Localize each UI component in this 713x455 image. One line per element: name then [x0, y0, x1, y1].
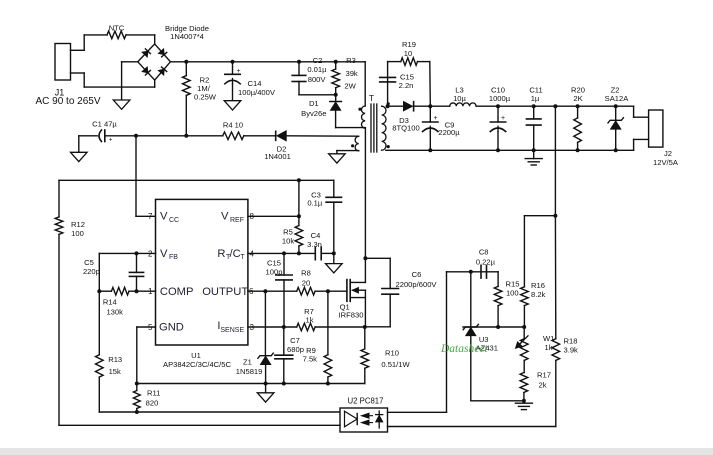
node dot secondary bottom [387, 145, 390, 148]
wire C8 node [447, 271, 499, 273]
svg-text:R5: R5 [283, 228, 293, 237]
resistor R2 [184, 60, 188, 64]
resistor R19 [401, 58, 418, 66]
svg-text:R4 10: R4 10 [223, 121, 243, 130]
svg-text:R15: R15 [506, 280, 520, 289]
phototransistor in U2 [345, 411, 358, 427]
capacitor C4 [314, 247, 316, 260]
svg-text:+: + [109, 137, 113, 144]
svg-text:D1: D1 [309, 99, 319, 108]
svg-text:C10: C10 [491, 85, 505, 94]
wire VREF rail [59, 179, 299, 181]
resistor R8 [297, 287, 315, 295]
ground [257, 393, 274, 402]
resistor R3 [334, 60, 338, 64]
svg-text:C7: C7 [290, 336, 300, 345]
svg-text:FB: FB [169, 254, 178, 261]
node dot primary [358, 108, 361, 111]
svg-text:+: + [236, 68, 240, 75]
diode D1 Byv26e [335, 95, 337, 102]
resistor R7 [297, 323, 315, 331]
svg-text:220p: 220p [83, 267, 100, 276]
svg-text:1000µ: 1000µ [489, 94, 511, 103]
diode D3 8TQ100 [404, 102, 413, 111]
svg-text:IRF830: IRF830 [339, 310, 364, 319]
svg-text:R19: R19 [402, 40, 416, 49]
capacitor C1 [79, 135, 97, 137]
svg-text:1k: 1k [305, 316, 313, 325]
svg-text:U2 PC817: U2 PC817 [348, 397, 384, 406]
wire [134, 134, 138, 138]
LED in U2 [378, 411, 380, 428]
capacitor C6 [389, 258, 391, 288]
svg-text:T: T [369, 93, 374, 103]
ground [333, 253, 335, 263]
svg-text:3.3n: 3.3n [307, 240, 322, 249]
wire secondary return [386, 149, 634, 151]
wire sense divider feed [554, 106, 556, 216]
wire opto emitter rail [59, 424, 340, 426]
svg-text:U1: U1 [191, 351, 201, 360]
svg-text:10µ: 10µ [453, 94, 466, 103]
diode Z1 1N5819 [264, 291, 266, 356]
svg-text:2200p/600V: 2200p/600V [396, 280, 438, 289]
svg-text:V: V [160, 248, 168, 260]
capacitor C7 [283, 327, 285, 355]
svg-text:Datasheet: Datasheet [440, 343, 488, 355]
ground [78, 136, 80, 153]
wire [418, 61, 430, 63]
resistor R10 [364, 327, 366, 349]
optocoupler U2 PC817 [340, 408, 388, 432]
svg-text:C11: C11 [529, 85, 542, 94]
svg-text:COMP: COMP [160, 286, 194, 298]
svg-text:20: 20 [302, 279, 310, 288]
capacitor C14 [231, 60, 235, 64]
resistor R13 [98, 291, 100, 355]
wire VREF pin [248, 215, 299, 217]
svg-text:R16: R16 [531, 281, 545, 290]
ground [122, 61, 138, 63]
svg-text:3.9k: 3.9k [564, 346, 579, 355]
resistor R20 [576, 104, 580, 108]
capacitor C15 timing [282, 251, 286, 255]
svg-text:OUTPUT: OUTPUT [202, 286, 248, 298]
svg-text:REF: REF [230, 217, 244, 224]
wire primary top [364, 62, 366, 106]
svg-text:100: 100 [71, 229, 84, 238]
svg-text:12V/5A: 12V/5A [653, 158, 679, 167]
svg-text:15k: 15k [109, 367, 121, 376]
diode D2 1N4001 [275, 131, 277, 140]
svg-text:100µ/400V: 100µ/400V [238, 88, 276, 97]
resistor R11 [136, 384, 138, 391]
svg-text:AP3842C/3C/4C/5C: AP3842C/3C/4C/5C [163, 360, 231, 369]
svg-text:SA12A: SA12A [605, 94, 630, 103]
svg-text:R3: R3 [346, 56, 356, 65]
svg-text:+: + [433, 115, 437, 122]
svg-text:C4: C4 [311, 231, 321, 240]
resistor R4 [223, 132, 244, 140]
svg-text:0.25W: 0.25W [194, 93, 217, 102]
svg-text:100: 100 [506, 289, 519, 298]
connector J1 [55, 44, 71, 81]
svg-text:Z2: Z2 [611, 85, 620, 94]
svg-text:R: R [217, 248, 225, 260]
resistor R17 [520, 373, 528, 393]
ground [224, 101, 241, 110]
wire drain line [364, 128, 366, 258]
svg-text:R14: R14 [103, 298, 117, 307]
svg-text:V: V [221, 211, 229, 223]
capacitor C2 [297, 60, 301, 64]
connector J2 [633, 106, 635, 117]
ground [329, 154, 346, 163]
svg-text:R9: R9 [306, 346, 316, 355]
svg-text:R13: R13 [108, 355, 122, 364]
svg-text:+: + [501, 115, 505, 122]
capacitor C15 snubber [380, 76, 396, 78]
svg-text:C5: C5 [84, 258, 94, 267]
node dot secondary top [387, 102, 390, 105]
svg-text:8.2k: 8.2k [531, 290, 546, 299]
svg-text:1N4007*4: 1N4007*4 [170, 32, 204, 41]
resistor R18 [554, 216, 556, 339]
svg-text:0.1µ: 0.1µ [307, 199, 323, 208]
svg-text:C14: C14 [248, 79, 262, 88]
wire secondary rail [386, 104, 390, 108]
svg-text:Byv26e: Byv26e [301, 109, 326, 118]
svg-text:820: 820 [146, 398, 159, 407]
svg-text:7: 7 [148, 212, 153, 221]
svg-text:R12: R12 [71, 220, 85, 229]
wire VFB [99, 252, 155, 254]
svg-text:1N5819: 1N5819 [236, 367, 263, 376]
svg-text:T: T [240, 254, 245, 261]
wire GND pin [137, 326, 156, 328]
wire snubber [387, 62, 389, 107]
svg-text:39k: 39k [345, 69, 357, 78]
wire [476, 105, 633, 107]
wire opto collector out [388, 411, 447, 413]
capacitor C8 [480, 266, 482, 279]
shunt regulator U3 AZ431 [470, 272, 472, 327]
wire OUTPUT [248, 290, 297, 292]
wire opto led return [388, 426, 556, 428]
svg-text:C15: C15 [267, 259, 281, 268]
svg-text:8TQ100: 8TQ100 [392, 124, 419, 133]
capacitor C9 [429, 106, 431, 122]
op-amp U1 AP3842C controller [156, 199, 248, 345]
resistor R12 [58, 180, 60, 217]
wire primary ground line [137, 383, 365, 385]
svg-text:Z1: Z1 [243, 358, 252, 367]
transistor Q1 IRF830 [346, 280, 348, 302]
svg-text:R17: R17 [537, 370, 551, 379]
svg-text:C6: C6 [412, 270, 422, 279]
svg-text:NTC: NTC [109, 24, 125, 33]
zener Z2 SA12A [614, 104, 618, 108]
primary winding [362, 106, 366, 128]
thermistor NTC [84, 34, 107, 36]
light arrows [362, 413, 370, 418]
wire COMP [129, 290, 156, 292]
inductor L3 [450, 103, 476, 106]
ground earth [515, 402, 532, 404]
svg-text:0.22µ: 0.22µ [476, 257, 496, 266]
svg-text:2200µ: 2200µ [438, 128, 460, 137]
bridge rectifier 1N4007*4 [138, 44, 171, 80]
svg-text:R11: R11 [147, 388, 160, 397]
node sense tap [553, 104, 557, 108]
svg-text:GND: GND [159, 322, 184, 334]
svg-text:C8: C8 [479, 247, 489, 256]
svg-text:J2: J2 [664, 149, 672, 158]
wire ISENSE [248, 326, 297, 328]
wire drain branch [365, 257, 390, 259]
svg-text:2.2n: 2.2n [399, 81, 414, 90]
resistor R14 [111, 287, 129, 295]
svg-text:10: 10 [404, 49, 412, 58]
svg-text:2W: 2W [344, 81, 356, 90]
svg-text:2K: 2K [573, 94, 582, 103]
resistor R9 [327, 291, 329, 355]
potentiometer W1 [523, 327, 525, 339]
resistor R5 [298, 180, 300, 225]
capacitor C5 [136, 253, 138, 272]
svg-text:0.51/1W: 0.51/1W [381, 360, 410, 369]
resistor R15 [497, 272, 499, 287]
svg-text:7.5k: 7.5k [303, 355, 318, 364]
svg-text:R18: R18 [564, 337, 578, 346]
resistor R16 [523, 216, 525, 287]
capacitor C3 [333, 180, 335, 197]
svg-text:C2: C2 [313, 56, 323, 65]
svg-text:130k: 130k [106, 307, 123, 316]
svg-text:100p: 100p [266, 268, 283, 277]
wire RT/CT [248, 252, 315, 254]
svg-text:CC: CC [169, 217, 179, 224]
svg-text:10k: 10k [282, 237, 294, 246]
node [363, 325, 367, 329]
capacitor C11 [532, 104, 536, 108]
svg-text:R8: R8 [301, 269, 311, 278]
secondary winding [382, 106, 386, 150]
capacitor C10 [496, 104, 500, 108]
wire aux return [337, 150, 359, 152]
svg-text:800V: 800V [308, 75, 327, 84]
svg-text:1µ: 1µ [531, 94, 540, 103]
svg-text:680p: 680p [287, 345, 304, 354]
wire ref line [463, 326, 524, 328]
svg-text:2k: 2k [539, 381, 547, 390]
svg-text:1N4001: 1N4001 [264, 152, 291, 161]
wire [244, 135, 276, 137]
aux winding [355, 136, 359, 150]
svg-text:AC 90 to 265V: AC 90 to 265V [35, 96, 100, 107]
svg-text:0.01µ: 0.01µ [307, 65, 327, 74]
wire VCC feed [135, 136, 137, 217]
wire to opto [99, 411, 340, 413]
svg-text:V: V [160, 211, 168, 223]
wire [414, 105, 450, 107]
node dot aux [351, 144, 354, 147]
svg-text:C1 47µ: C1 47µ [92, 120, 117, 129]
svg-text:SENSE: SENSE [220, 327, 244, 334]
wire main DC rail [170, 61, 365, 63]
svg-text:/C: /C [230, 248, 241, 260]
ground earth [533, 150, 535, 158]
svg-text:R10: R10 [385, 349, 399, 358]
wire [154, 35, 156, 44]
